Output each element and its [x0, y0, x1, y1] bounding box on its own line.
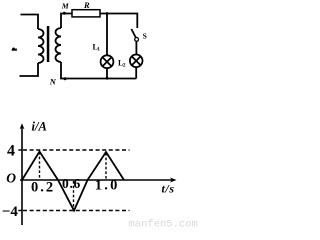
- wire secondary bottom to N: [61, 62, 136, 79]
- transformer core: [47, 26, 50, 62]
- source u label: [12, 47, 17, 50]
- tick y=-4: [18, 210, 22, 212]
- svg-text:t/s: t/s: [162, 181, 175, 195]
- svg-text:N: N: [49, 77, 57, 87]
- switch S contact circle: [135, 38, 139, 42]
- junction dot branch1 top: [106, 12, 109, 15]
- dashed vertical t=0.2: [39, 152, 41, 180]
- wire primary top: [21, 15, 39, 30]
- svg-text:M: M: [61, 1, 70, 10]
- junction dot N: [64, 77, 67, 80]
- lamp L2: [130, 55, 143, 68]
- svg-text:S: S: [143, 32, 147, 41]
- dashed vertical t=0.6: [73, 181, 75, 210]
- wire lamp L1 bottom: [106, 68, 108, 78]
- svg-text:i/A: i/A: [32, 119, 47, 133]
- graph x-axis: [20, 179, 173, 181]
- tick y=4: [18, 149, 22, 151]
- svg-text:R: R: [83, 0, 90, 10]
- junction dot branch1 bottom: [106, 77, 109, 80]
- dashed vertical t=1.0: [105, 153, 107, 180]
- svg-text:4: 4: [7, 142, 15, 159]
- svg-text:manfen5.com: manfen5.com: [129, 219, 198, 231]
- wire top right: [100, 14, 137, 29]
- graph y-axis arrowhead: [20, 123, 25, 129]
- lamp L1: [101, 55, 114, 68]
- transformer primary coil: [38, 29, 44, 63]
- svg-text:O: O: [6, 170, 16, 185]
- svg-text:1.0: 1.0: [95, 178, 120, 194]
- resistor R box: [72, 10, 100, 17]
- svg-text:2: 2: [123, 63, 126, 69]
- dashed line y=+4: [23, 149, 130, 151]
- svg-text:0.2: 0.2: [31, 179, 55, 195]
- svg-text:1: 1: [97, 47, 100, 53]
- transformer secondary coil: [56, 28, 62, 62]
- wire switch to lamp L2: [135, 41, 137, 54]
- graph y-axis: [21, 126, 23, 225]
- svg-text:−4: −4: [2, 204, 19, 220]
- wire branch1 down to lamp: [106, 14, 108, 56]
- svg-text:0.6: 0.6: [62, 176, 81, 191]
- dashed line y=-4: [23, 210, 130, 212]
- current waveform: [22, 152, 124, 211]
- wire lamp L2 bottom: [135, 67, 137, 78]
- graph x-axis arrowhead: [170, 178, 177, 183]
- wire primary bottom: [20, 63, 39, 76]
- junction dot M: [63, 12, 66, 15]
- switch S blade: [131, 29, 135, 37]
- wire secondary top to M: [61, 14, 72, 29]
